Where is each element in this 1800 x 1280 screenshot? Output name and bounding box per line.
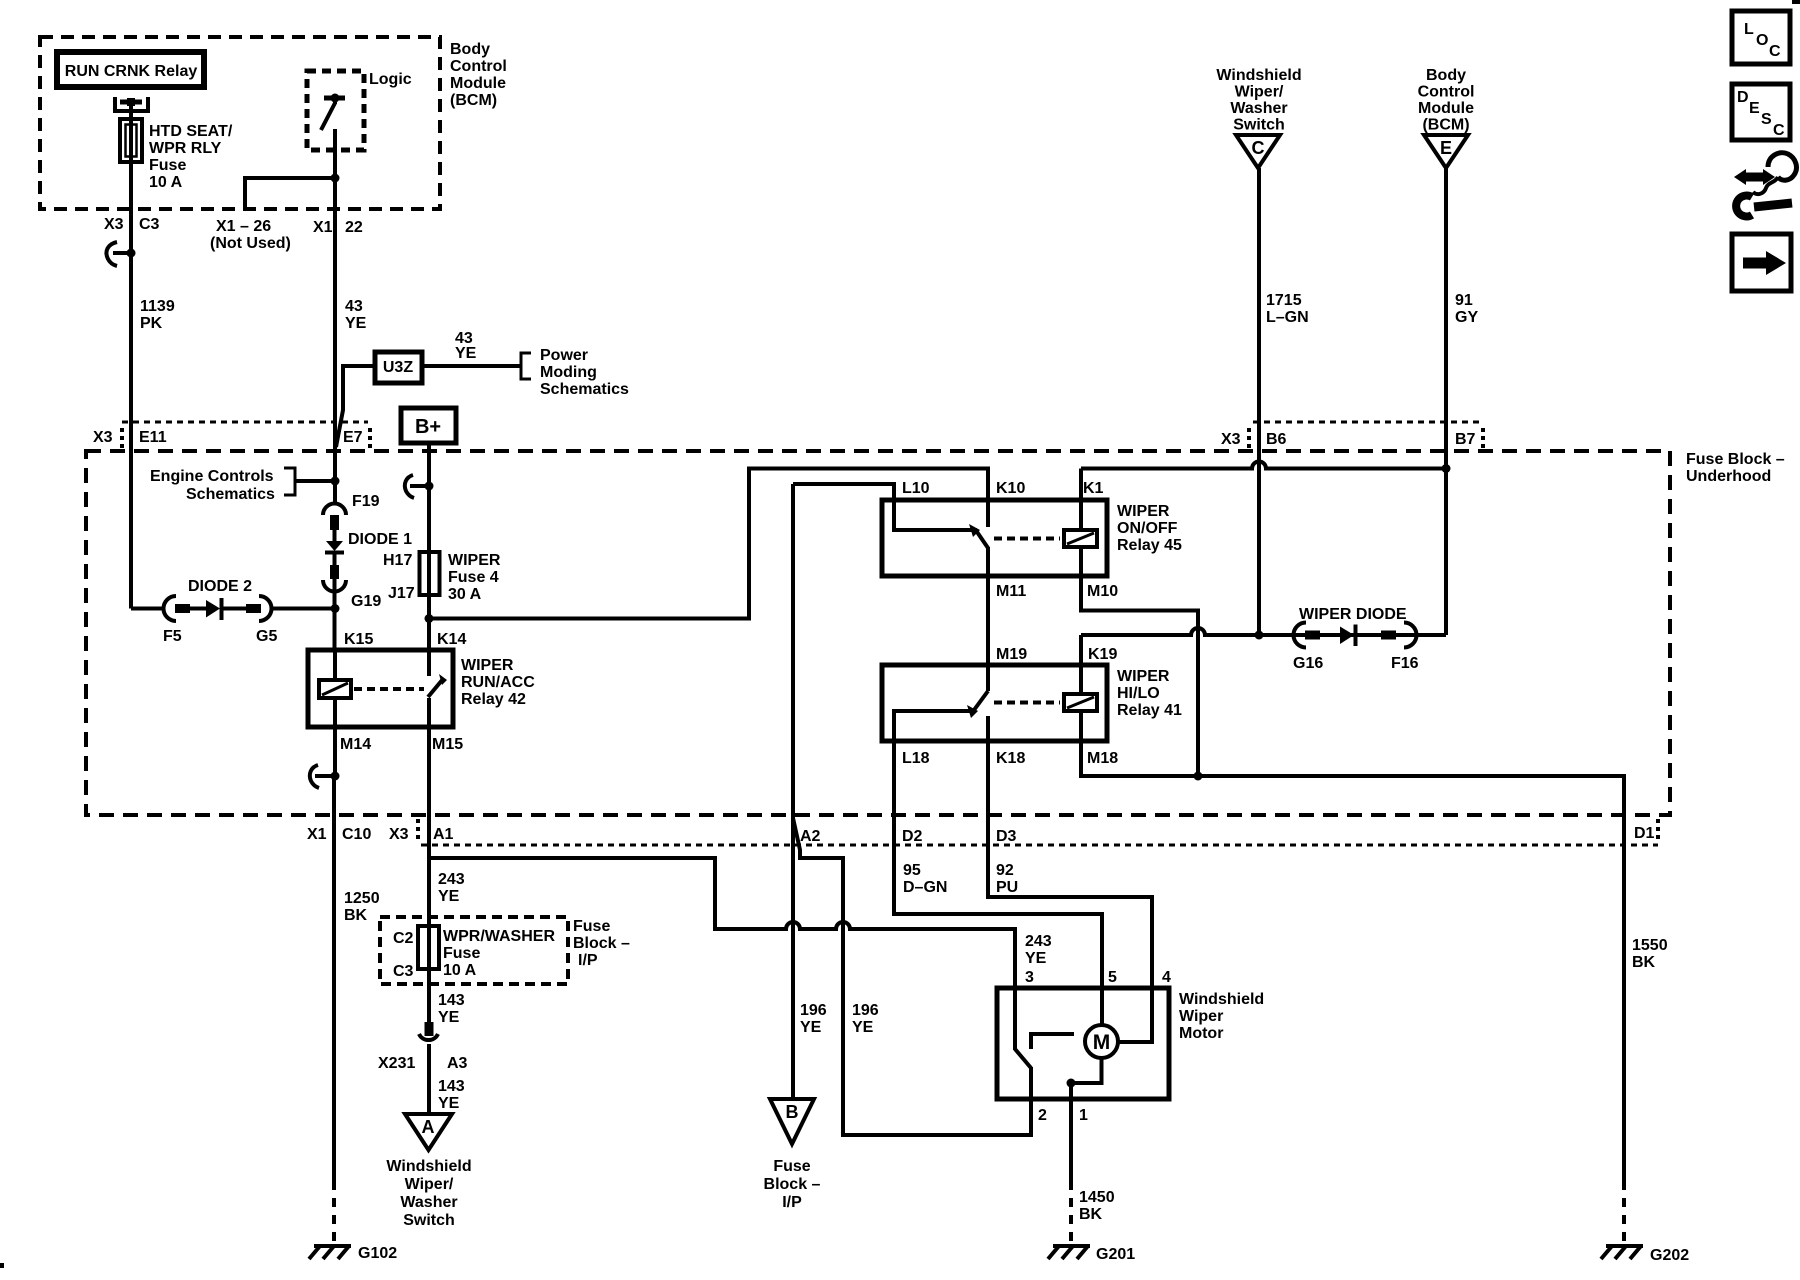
svg-text:Power: Power [540, 347, 588, 364]
label L18 / K18 / M18 [902, 750, 1118, 767]
svg-text:K14: K14 [437, 631, 466, 648]
label 196 YE (right) [852, 1002, 879, 1036]
svg-text:D: D [1737, 89, 1749, 106]
wire M14 down through X1/C10 to ground lead [332, 776, 336, 1181]
relay42 actuation dashed link [354, 687, 424, 691]
svg-text:C2: C2 [393, 930, 414, 947]
off-page connector triangle B [770, 1099, 814, 1144]
svg-text:K10: K10 [996, 480, 1025, 497]
wire X231 to triangle A [427, 1044, 431, 1114]
label M11 / M10 [996, 583, 1118, 600]
wire K1 into coil45 [1079, 469, 1083, 531]
label 91 GY [1455, 292, 1478, 326]
svg-text:F19: F19 [352, 493, 380, 510]
label 143 YE (above X231) [438, 992, 465, 1026]
label 1450 BK [1079, 1189, 1115, 1223]
connector F19 upper arc [323, 504, 346, 516]
svg-text:Motor: Motor [1179, 1025, 1223, 1042]
relay45 coil [1064, 530, 1097, 547]
wire pin5 into motor armature [1100, 988, 1104, 1026]
connector separator right of B7 [1481, 428, 1485, 448]
svg-text:YE: YE [1025, 950, 1047, 967]
connector separator left of E11 [120, 428, 124, 448]
svg-text:BK: BK [1079, 1206, 1103, 1223]
svg-text:E11: E11 [139, 429, 167, 446]
svg-text:1450: 1450 [1079, 1189, 1115, 1206]
svg-text:F16: F16 [1391, 655, 1419, 672]
label WIPER HI/LO Relay 41 [1117, 668, 1182, 719]
svg-text:L18: L18 [902, 750, 930, 767]
svg-text:G202: G202 [1650, 1247, 1689, 1264]
svg-text:Body: Body [1426, 67, 1466, 84]
svg-text:O: O [1756, 32, 1768, 49]
wire 91 GY from E to B7 and down to diode line corner [1444, 168, 1448, 635]
label H17 / J17 [383, 552, 415, 602]
label L10 / K10 / K1 [902, 480, 1104, 497]
svg-text:C10: C10 [342, 826, 371, 843]
svg-text:Relay 42: Relay 42 [461, 691, 526, 708]
wire G19 to K15 junction [333, 579, 337, 650]
off-page connector triangle C [1236, 135, 1280, 168]
label 196 YE (left) [800, 1002, 827, 1036]
connector line BCM X3/E11-E7 (fine dashed) [122, 421, 368, 424]
svg-text:2: 2 [1038, 1107, 1047, 1124]
svg-text:HI/LO: HI/LO [1117, 685, 1160, 702]
motor armature M circle [1085, 1025, 1118, 1058]
connector separator between X3 and A1 [416, 819, 420, 841]
svg-text:C3: C3 [139, 216, 160, 233]
node junction M10 drop onto M18 rail [1194, 772, 1203, 781]
wire E11 corner to DIODE 2 [131, 607, 164, 611]
svg-text:ON/OFF: ON/OFF [1117, 520, 1178, 537]
label Windshield Wiper/ Washer Switch (top) [1216, 67, 1301, 134]
svg-text:43: 43 [345, 298, 363, 315]
bracket Power Moding Schematics [521, 353, 531, 379]
wire K19 from coil41 up to diode line [1079, 635, 1083, 694]
svg-text:X1 – 26: X1 – 26 [216, 218, 271, 235]
svg-text:10 A: 10 A [149, 174, 183, 191]
label WIPER RUN/ACC Relay 42 [461, 657, 535, 708]
svg-text:95: 95 [903, 862, 921, 879]
connector G19 lower arc [323, 580, 346, 592]
wire fuse4 down to relay42 K14 [427, 552, 431, 676]
relay WIPER HI/LO Relay 41 box [882, 665, 1107, 741]
svg-text:RUN/ACC: RUN/ACC [461, 674, 535, 691]
svg-text:K18: K18 [996, 750, 1025, 767]
connector line BCM X3/B6-B7 (fine dashed) [1253, 421, 1483, 424]
svg-text:WIPER: WIPER [461, 657, 514, 674]
svg-text:1139: 1139 [140, 298, 175, 315]
svg-text:U3Z: U3Z [383, 359, 413, 376]
icon forward arrow box [1732, 234, 1791, 291]
label K15 / K14 [344, 631, 466, 648]
wire 1550 BK dashed ground lead [1622, 1181, 1626, 1243]
svg-text:GY: GY [1455, 309, 1478, 326]
svg-text:1715: 1715 [1266, 292, 1302, 309]
relay WIPER ON/OFF Relay 45 box [882, 500, 1107, 576]
svg-text:E: E [1440, 138, 1452, 158]
label 243 YE (motor) [1025, 933, 1052, 967]
svg-text:K19: K19 [1088, 646, 1117, 663]
svg-text:D1: D1 [1634, 825, 1655, 842]
label X3 / E11 / E7 [93, 429, 363, 446]
svg-text:L10: L10 [902, 480, 930, 497]
label Fuse Block - I/P (right of fuse box) [573, 918, 630, 969]
connector separator right of D1 [1656, 819, 1660, 841]
relay WIPER RUN/ACC Relay 42 box [308, 650, 453, 727]
svg-text:Fuse: Fuse [149, 157, 186, 174]
svg-text:X1: X1 [307, 826, 327, 843]
svg-text:Block –: Block – [764, 1176, 821, 1193]
wire U3Z feed merging into E7 pin [336, 366, 375, 447]
label F5 / G5 [163, 628, 277, 645]
svg-text:Wiper: Wiper [1179, 1008, 1223, 1025]
label WPR/WASHER Fuse 10 A [443, 928, 555, 979]
label M19 / K19 [996, 646, 1117, 663]
label M14 / M15 [340, 736, 463, 753]
svg-text:1: 1 [1079, 1107, 1088, 1124]
svg-text:DIODE 1: DIODE 1 [348, 531, 412, 548]
relay41 switch blade [967, 691, 988, 718]
relay41 actuation dashed link [994, 701, 1060, 705]
logic switch dashed box [307, 71, 364, 150]
svg-text:A3: A3 [447, 1055, 468, 1072]
svg-text:M14: M14 [340, 736, 371, 753]
wire K19 to wiper diode line with hop over M10 drop [1081, 628, 1446, 635]
svg-text:G201: G201 [1096, 1246, 1135, 1263]
svg-text:(Not Used): (Not Used) [210, 235, 291, 252]
wire coil45 to M10 corner and down [1081, 547, 1198, 775]
wire M11 relay45 to relay41 M19 [986, 547, 990, 691]
connector hook on M14 wire [310, 765, 340, 788]
connector X231 inline symbol [419, 1022, 438, 1040]
label 43 YE [345, 298, 367, 332]
wire pin4 into motor armature [1119, 988, 1152, 1042]
fuse WPR/WASHER 10A [418, 926, 439, 969]
svg-text:Fuse 4: Fuse 4 [448, 569, 499, 586]
svg-text:X3: X3 [389, 826, 409, 843]
label X1 - 26 (Not Used) [210, 218, 291, 252]
ground G201 [1048, 1246, 1090, 1259]
wire L10 feed from A2 riser [793, 484, 972, 530]
svg-text:E7: E7 [343, 429, 363, 446]
svg-text:PK: PK [140, 315, 163, 332]
svg-text:A: A [422, 1117, 435, 1137]
svg-text:Washer: Washer [400, 1194, 457, 1211]
label Windshield Wiper Motor [1179, 991, 1264, 1042]
svg-text:X3: X3 [93, 429, 113, 446]
svg-text:92: 92 [996, 862, 1014, 879]
label Fuse Block - I/P (below B) [764, 1158, 821, 1211]
svg-text:WIPER: WIPER [1117, 668, 1170, 685]
svg-text:Block –: Block – [573, 935, 630, 952]
svg-text:C: C [1252, 138, 1265, 158]
svg-text:Relay 45: Relay 45 [1117, 537, 1182, 554]
svg-text:243: 243 [1025, 933, 1052, 950]
svg-text:K15: K15 [344, 631, 373, 648]
fuse WIPER Fuse 4 30A [420, 552, 440, 595]
relay contact symbol under RUN CRNK Relay [115, 97, 148, 121]
icon LOC box [1732, 11, 1790, 64]
svg-text:Windshield: Windshield [386, 1158, 471, 1175]
label A2 / D2 / D3 / D1 [800, 825, 1655, 845]
diode DIODE 2 assembly with connectors F5/G5 [164, 596, 336, 621]
wire B+ down to WIPER fuse [427, 443, 431, 552]
svg-text:WIPER: WIPER [1117, 503, 1170, 520]
svg-text:Module: Module [450, 75, 506, 92]
label Body Control Module (BCM) (top right) [1418, 67, 1475, 134]
label G16 / F16 [1293, 655, 1419, 672]
label Power Moding Schematics [540, 347, 629, 398]
svg-text:Engine Controls: Engine Controls [150, 468, 274, 485]
off-page connector triangle A [405, 1114, 452, 1150]
svg-text:YE: YE [438, 1009, 460, 1026]
node junction for X1-26 stub [331, 174, 340, 183]
svg-text:Moding: Moding [540, 364, 597, 381]
svg-text:B: B [786, 1102, 799, 1122]
svg-text:M19: M19 [996, 646, 1027, 663]
icon double arrow with wrench [1734, 153, 1796, 217]
svg-text:I/P: I/P [578, 952, 598, 969]
svg-text:Control: Control [450, 58, 507, 75]
svg-text:X3: X3 [104, 216, 124, 233]
svg-text:Underhood: Underhood [1686, 468, 1771, 485]
wire armature to pin1 junction [1071, 1058, 1102, 1083]
svg-text:Switch: Switch [1233, 117, 1285, 134]
relay41 coil [1064, 694, 1097, 711]
bracket Engine Controls Schematics [284, 468, 295, 495]
label C2 / C3 [393, 930, 414, 980]
svg-text:Wiper/: Wiper/ [1235, 84, 1284, 101]
node junction G19/diode2 [331, 604, 340, 613]
svg-text:B6: B6 [1266, 431, 1287, 448]
svg-text:Body: Body [450, 41, 490, 58]
wire 92 PU from K18 to motor pin 4 [988, 815, 1152, 988]
svg-text:(BCM): (BCM) [1422, 117, 1469, 134]
svg-text:X231: X231 [378, 1055, 415, 1072]
Fuse Block - Underhood dashed box [86, 451, 1670, 815]
svg-text:X3: X3 [1221, 431, 1241, 448]
svg-text:(BCM): (BCM) [450, 92, 497, 109]
svg-text:YE: YE [800, 1019, 822, 1036]
relay42 switch blade [428, 674, 447, 727]
svg-text:BK: BK [344, 907, 368, 924]
wire E7 down to F19 [333, 452, 337, 505]
page edge mark bottom left [0, 1263, 4, 1268]
svg-text:Logic: Logic [369, 71, 412, 88]
battery feed B+ box [401, 408, 456, 443]
connector separator right of E7 [368, 428, 372, 448]
relay RUN CRNK Relay label box [57, 52, 204, 87]
svg-text:243: 243 [438, 871, 465, 888]
label 143 YE (below X231) [438, 1078, 465, 1112]
svg-text:M18: M18 [1087, 750, 1118, 767]
ground G102 [309, 1246, 351, 1259]
svg-text:30 A: 30 A [448, 586, 482, 603]
wire fuse to C3 connector (1139 PK upper) [129, 119, 133, 253]
svg-text:X1: X1 [313, 219, 333, 236]
svg-text:Relay 41: Relay 41 [1117, 702, 1182, 719]
svg-text:M: M [1093, 1031, 1111, 1054]
label 1550 BK [1632, 937, 1668, 971]
svg-text:Fuse: Fuse [443, 945, 480, 962]
svg-text:196: 196 [800, 1002, 827, 1019]
svg-text:4: 4 [1162, 969, 1171, 986]
svg-text:YE: YE [852, 1019, 874, 1036]
relay45 actuation dashed link [994, 537, 1060, 541]
label X1 / C10 / X3 / A1 [307, 826, 454, 843]
svg-text:RUN CRNK Relay: RUN CRNK Relay [65, 63, 198, 80]
svg-text:I/P: I/P [782, 1194, 802, 1211]
svg-text:Fuse: Fuse [773, 1158, 810, 1175]
svg-text:D3: D3 [996, 828, 1017, 845]
wire K15 into coil / coil to M14 [333, 650, 337, 778]
svg-text:196: 196 [852, 1002, 879, 1019]
svg-text:91: 91 [1455, 292, 1473, 309]
svg-text:BK: BK [1632, 954, 1656, 971]
wire L18 contact line and leg [894, 711, 970, 815]
label Engine Controls Schematics [150, 468, 275, 503]
svg-text:J17: J17 [388, 585, 415, 602]
connector G19 bold pin [330, 565, 339, 579]
label 43 YE at U3Z [455, 330, 477, 362]
svg-text:M15: M15 [432, 736, 463, 753]
svg-text:G102: G102 [358, 1245, 397, 1262]
node junction K1 line on B7 wire [1442, 464, 1451, 473]
svg-text:G19: G19 [351, 593, 381, 610]
wire K1 feed line with hop over B6 [1081, 462, 1446, 469]
park switch fixed contact [1031, 1034, 1074, 1049]
wire diode1 to G19 [333, 552, 337, 566]
svg-text:10 A: 10 A [443, 962, 477, 979]
relay42 coil [319, 680, 351, 698]
svg-text:M10: M10 [1087, 583, 1118, 600]
fuse block I/P dashed box (WPR/WASHER fuse) [380, 917, 568, 984]
wire U3Z to Power Moding bracket (43 YE) [422, 364, 521, 368]
svg-text:YE: YE [438, 888, 460, 905]
relay45 switch blade [969, 524, 988, 548]
wire J17 feed to relay45 K10 [429, 469, 988, 619]
svg-text:Wiper/: Wiper/ [405, 1176, 454, 1193]
svg-text:YE: YE [438, 1095, 460, 1112]
svg-text:Fuse Block –: Fuse Block – [1686, 451, 1785, 468]
svg-text:A1: A1 [433, 826, 454, 843]
wire logic switch down through X1/22 to E7 [333, 129, 337, 452]
svg-text:WPR/WASHER: WPR/WASHER [443, 928, 555, 945]
block U3Z [375, 352, 422, 383]
svg-text:WIPER DIODE: WIPER DIODE [1299, 606, 1407, 623]
label X3 / B6 / B7 [1221, 431, 1476, 448]
node junction at engine controls tap [331, 477, 340, 486]
connector hook at C3 [106, 242, 135, 266]
svg-text:Schematics: Schematics [186, 486, 275, 503]
wire M14 dashed ground lead [332, 1181, 336, 1243]
page edge mark top right [1792, 0, 1800, 4]
wire M15/A1 down to WPR fuse [427, 727, 431, 926]
svg-text:YE: YE [345, 315, 367, 332]
svg-text:K1: K1 [1083, 480, 1104, 497]
svg-text:S: S [1761, 111, 1772, 128]
label X3 / C3 [104, 216, 160, 233]
fuse F HTD SEAT/WPR RLY 10A (holder symbol) [120, 119, 142, 162]
svg-text:D2: D2 [902, 828, 923, 845]
label Windshield Wiper/ Washer Switch (bottom) [386, 1158, 471, 1229]
off-page connector triangle E [1424, 135, 1468, 168]
label X231 / A3 [378, 1055, 468, 1072]
svg-text:5: 5 [1108, 969, 1117, 986]
svg-text:22: 22 [345, 219, 363, 236]
connector line bottom strip (fine dashed) [421, 844, 1658, 847]
label 92 PU [996, 862, 1018, 896]
diode DIODE 1 [325, 541, 344, 553]
svg-text:Schematics: Schematics [540, 381, 629, 398]
wire 243 YE branch from A1 riser to motor pin 3 (hops A2 and 196 wires) [429, 858, 1015, 988]
svg-text:L: L [1744, 21, 1754, 38]
svg-text:3: 3 [1025, 969, 1034, 986]
svg-text:PU: PU [996, 879, 1018, 896]
svg-text:Washer: Washer [1230, 100, 1287, 117]
wire through WPR fuse [427, 926, 431, 1023]
label pins 3 5 4 [1025, 969, 1171, 986]
svg-text:143: 143 [438, 992, 465, 1009]
svg-text:H17: H17 [383, 552, 412, 569]
svg-text:Windshield: Windshield [1179, 991, 1264, 1008]
connector separator left of B6 [1247, 428, 1251, 448]
label HTD SEAT/ WPR RLY Fuse 10 A [149, 123, 233, 191]
diode WIPER DIODE with connectors G16/F16 [1294, 623, 1417, 648]
connector hook on B+ wire [405, 475, 434, 498]
svg-text:143: 143 [438, 1078, 465, 1095]
wire pin1 1450 BK solid [1069, 1083, 1073, 1181]
switch symbol inside logic box [321, 94, 345, 131]
connector F19 bold pin [330, 515, 339, 530]
label WIPER Fuse 4 30 A [448, 552, 501, 603]
wire 1139 PK down to E11 [129, 253, 133, 609]
label pins 2 1 [1038, 1107, 1088, 1124]
svg-text:Module: Module [1418, 100, 1474, 117]
label 1139 PK [140, 298, 175, 332]
wire A2/196 YE down to triangle B [791, 484, 795, 1099]
icon DESC box [1732, 84, 1790, 140]
svg-text:F5: F5 [163, 628, 182, 645]
svg-text:Fuse: Fuse [573, 918, 610, 935]
BCM title label "Body Control Module (BCM)" [450, 41, 507, 109]
label 243 YE (A1) [438, 871, 465, 905]
wire bracket to E7 wire [295, 479, 335, 483]
svg-text:Control: Control [1418, 84, 1475, 101]
svg-text:C3: C3 [393, 963, 414, 980]
svg-text:G16: G16 [1293, 655, 1323, 672]
svg-text:D–GN: D–GN [903, 879, 947, 896]
wire between F19 and diode [333, 529, 337, 542]
svg-text:WPR RLY: WPR RLY [149, 140, 222, 157]
wire 95 D-GN from L18 to motor pin 5 [894, 815, 1102, 988]
svg-text:L–GN: L–GN [1266, 309, 1309, 326]
label Fuse Block - Underhood [1686, 451, 1785, 485]
Body Control Module (BCM) dashed box [40, 37, 440, 209]
svg-text:B+: B+ [415, 416, 441, 438]
svg-text:1250: 1250 [344, 890, 380, 907]
label 95 D-GN [903, 862, 947, 896]
node junction B6 wire on diode line [1255, 631, 1264, 640]
svg-text:G5: G5 [256, 628, 277, 645]
svg-text:E: E [1749, 100, 1760, 117]
wire 1715 L-GN from C to B6 and down to diode line [1257, 168, 1261, 635]
wire 1450 BK dashed ground lead [1069, 1181, 1073, 1243]
node junction pin1 [1067, 1079, 1076, 1088]
label WIPER ON/OFF Relay 45 [1117, 503, 1182, 554]
wire X1-26 (Not Used) stub [245, 178, 335, 209]
